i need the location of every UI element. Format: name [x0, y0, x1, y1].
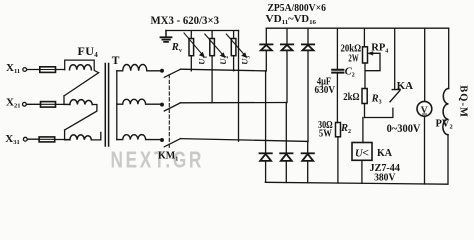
svg-text:X21: X21 — [6, 97, 20, 110]
relay box U< — [352, 143, 372, 161]
fuse FU4-3 — [39, 137, 55, 142]
contactor KM1 pole 1 — [161, 69, 181, 77]
RP4 wiper arrow — [365, 53, 380, 70]
svg-text:630V: 630V — [315, 85, 336, 96]
terminal X21 — [23, 102, 27, 106]
resistor R2 — [336, 123, 341, 137]
transformer T primary winding W3 — [65, 130, 101, 140]
svg-text:MX3 - 620/3×3: MX3 - 620/3×3 — [151, 13, 220, 27]
winding BQ-M coil — [443, 88, 449, 134]
phase wire L3 — [181, 139, 309, 142]
contact KA blade — [390, 90, 400, 102]
svg-text:C2: C2 — [345, 67, 355, 79]
svg-text:<: < — [362, 146, 369, 160]
voltmeter PV2 — [417, 101, 432, 116]
wire X31 to fuse — [27, 138, 70, 140]
svg-text:U2: U2 — [218, 56, 230, 65]
phase wire L2 — [181, 102, 287, 104]
ground — [161, 31, 172, 42]
svg-text:KA: KA — [397, 80, 414, 92]
varistor top bus — [166, 30, 239, 32]
transformer T primary winding W1 — [64, 60, 99, 96]
svg-text:U1: U1 — [197, 56, 209, 65]
varistor RV1 — [184, 31, 204, 71]
wire junction to KA contact bottom — [365, 108, 393, 117]
fuse FU4-2 — [41, 102, 56, 108]
varistor RV2 — [205, 31, 225, 103]
svg-text:2W: 2W — [348, 53, 359, 64]
svg-text:KA: KA — [377, 147, 392, 159]
svg-text:Rv: Rv — [171, 42, 182, 54]
capacitor C2 wires — [336, 28, 338, 122]
contactor KM1 linkage (dashed) — [168, 75, 170, 150]
diode VD15 — [280, 103, 292, 183]
varistor bus drop to phase L3 — [238, 31, 240, 142]
terminal X31 — [23, 137, 27, 141]
capacitor C2 — [332, 70, 343, 73]
svg-text:2kΩ: 2kΩ — [343, 92, 359, 103]
diode VD14 — [260, 71, 272, 182]
secondary winding S1 — [117, 64, 162, 70]
svg-text:RP4: RP4 — [371, 43, 388, 55]
diode VD16 — [302, 141, 314, 182]
svg-text:0~300V: 0~300V — [387, 123, 422, 135]
svg-text:KM1: KM1 — [158, 150, 178, 162]
phase wire L1 — [181, 69, 267, 71]
winding BQ-M wires — [447, 28, 450, 184]
wire R2 to bottom bus — [337, 137, 339, 183]
DC top bus — [266, 27, 448, 29]
wire X21 to fuse — [27, 103, 70, 105]
svg-text:X11: X11 — [6, 62, 20, 75]
voltmeter PV2 wires — [424, 28, 426, 184]
contactor KM1 pole 3 — [161, 139, 181, 147]
svg-text:5W: 5W — [319, 128, 332, 139]
potentiometer RP4 — [363, 47, 368, 63]
diode VD11 — [260, 28, 272, 71]
svg-text:BQ-M: BQ-M — [457, 85, 468, 118]
wire R3 to junction — [364, 104, 366, 118]
contact KA wire from top bus — [394, 28, 396, 89]
wire X11 to fuse — [27, 69, 65, 71]
DC bottom bus — [265, 182, 447, 184]
diode VD12 — [281, 28, 293, 102]
svg-text:R3: R3 — [371, 93, 382, 105]
transformer core — [105, 64, 108, 147]
svg-text:380V: 380V — [374, 172, 395, 184]
potentiometer RP4 wires — [363, 28, 366, 88]
diode VD13 — [302, 28, 314, 141]
transformer T primary winding W2 — [64, 96, 97, 130]
svg-text:R2: R2 — [340, 123, 351, 135]
varistor RV3 — [226, 31, 246, 71]
svg-text:FU4: FU4 — [78, 44, 99, 59]
svg-text:X31: X31 — [5, 133, 19, 146]
secondary winding S3 — [117, 135, 161, 140]
terminal X11 — [23, 68, 27, 72]
svg-text:PV2: PV2 — [436, 119, 453, 131]
contactor KM1 pole 2 — [161, 103, 181, 111]
svg-text:ZP5A/800V×6: ZP5A/800V×6 — [268, 2, 327, 14]
transformer secondary common wire — [116, 71, 118, 140]
wire relay box to bottom bus — [361, 160, 363, 183]
secondary winding S2 — [117, 99, 162, 104]
wire junction down to relay box — [362, 118, 364, 143]
svg-text:U3: U3 — [240, 56, 252, 65]
fuse FU4-1 — [40, 67, 56, 73]
resistor R3 — [362, 89, 367, 104]
svg-text:T: T — [112, 55, 120, 67]
svg-text:VD11~VD16: VD11~VD16 — [266, 14, 317, 26]
